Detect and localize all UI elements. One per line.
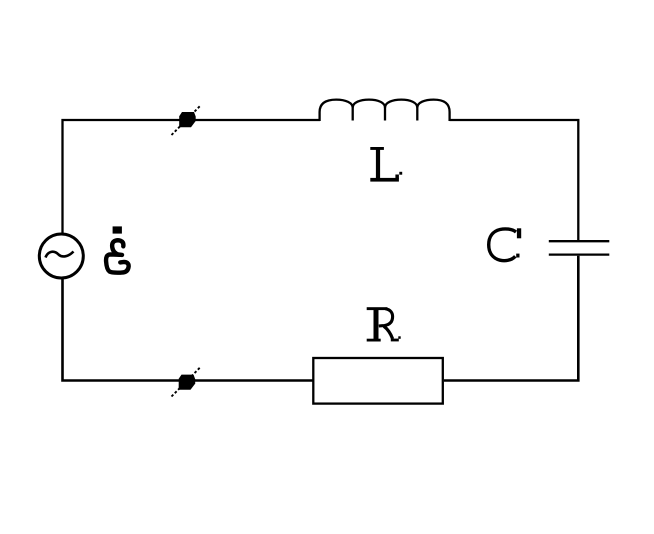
wire bottom-left: from resistor to source bottom <box>63 278 314 381</box>
label L <box>370 147 402 182</box>
current arrow on bottom wire (head blob) <box>179 375 196 390</box>
current arrow on bottom wire (shaft) <box>172 367 202 397</box>
inductor valley tick 2 <box>384 107 386 121</box>
inductor valley tick 1 <box>352 107 354 121</box>
capacitor C top plate <box>549 240 610 242</box>
label EMF epsilon (script epsilon body) <box>106 240 129 272</box>
resistor R box <box>313 358 443 404</box>
label C <box>489 228 522 260</box>
inductor valley tick 3 <box>416 107 418 121</box>
label R <box>367 307 401 341</box>
inductor L <box>320 100 450 121</box>
current arrow on top wire (head blob) <box>179 112 196 127</box>
current arrow on top wire (shaft) <box>172 105 202 135</box>
wire top-left: from source top up left side and along top to inductor <box>63 120 321 235</box>
wire right-bottom: from capacitor down and along bottom to resistor <box>444 256 578 381</box>
wire top-right: from inductor to capacitor top plate <box>450 120 579 240</box>
AC source circle <box>39 234 83 278</box>
capacitor C bottom plate <box>549 253 610 255</box>
AC source tilde <box>46 252 74 258</box>
label EMF epsilon dot (dot) <box>113 226 122 233</box>
